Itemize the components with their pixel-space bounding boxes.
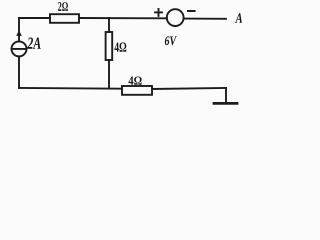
plus sign of 6V source — [155, 9, 162, 16]
resistor R1 2ohm (top) — [50, 14, 79, 23]
ground — [214, 102, 237, 105]
wire: bottom right horizontal from R3 — [152, 88, 226, 89]
wire: top-left horizontal from corner to resistor R1 — [19, 17, 50, 19]
voltage source U1 circle 6V — [167, 9, 184, 26]
current source arrow head — [16, 30, 22, 36]
label 2A — [27, 38, 41, 49]
label terminal A — [235, 13, 242, 22]
wire: top middle from R1 to voltage source — [79, 17, 167, 19]
wire: middle branch lower — [108, 60, 110, 89]
label 4 ohm bottom — [128, 77, 141, 85]
resistor R2 4ohm (middle vertical) — [106, 32, 113, 60]
wire: ground drop vertical — [225, 88, 227, 103]
wire: bottom left horizontal to R3 — [19, 87, 122, 90]
wire: top right from source to terminal A — [184, 18, 226, 20]
wire: left vertical upper (with current arrow) — [18, 18, 20, 42]
label 6V — [165, 36, 177, 45]
label 2 ohm — [58, 2, 68, 11]
current source I1 circle — [12, 41, 27, 56]
minus sign of 6V source — [188, 10, 195, 12]
current source I1 diameter bar — [12, 48, 27, 50]
wire: middle branch upper — [108, 18, 110, 32]
label 4 ohm middle — [114, 42, 126, 51]
wire: left vertical lower — [18, 56, 20, 88]
resistor R3 4ohm (bottom) — [122, 86, 152, 95]
